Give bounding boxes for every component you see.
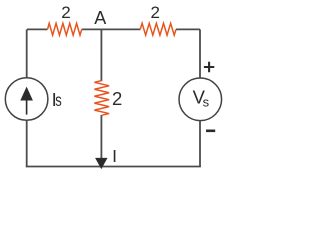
svg-text:2: 2 (112, 88, 122, 109)
svg-text:I: I (112, 146, 117, 166)
svg-text:s: s (55, 90, 62, 110)
svg-text:A: A (94, 8, 106, 28)
svg-text:2: 2 (61, 3, 70, 22)
svg-text:2: 2 (150, 3, 159, 22)
svg-text:s: s (203, 94, 210, 109)
